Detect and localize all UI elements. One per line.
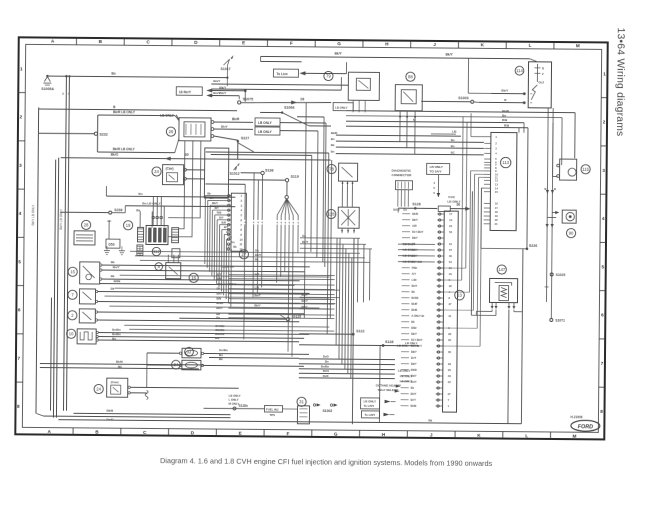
svg-text:Bn: Bn xyxy=(111,72,115,76)
svg-text:S118n: S118n xyxy=(239,404,248,408)
svg-text:24: 24 xyxy=(154,169,159,174)
svg-text:Bk/R: Bk/R xyxy=(502,109,510,113)
svg-text:Bn/Bn: Bn/Bn xyxy=(112,332,121,336)
svg-text:147: 147 xyxy=(498,267,506,272)
svg-text:23: 23 xyxy=(457,293,462,298)
svg-text:B/Y: B/Y xyxy=(219,216,224,220)
svg-text:B/T: B/T xyxy=(255,272,260,276)
svg-text:Bk: Bk xyxy=(111,274,115,278)
svg-text:Gn/Bn: Gn/Bn xyxy=(219,348,228,352)
svg-text:Bk/Y: Bk/Y xyxy=(301,305,307,309)
svg-text:Bn: Bn xyxy=(502,114,506,118)
svg-text:Bk/Y LB ONLY: Bk/Y LB ONLY xyxy=(59,208,63,230)
svg-text:OL2: OL2 xyxy=(538,80,544,84)
svg-text:Bn: Bn xyxy=(451,138,455,142)
svg-text:Bn: Bn xyxy=(331,137,335,141)
svg-text:S227: S227 xyxy=(241,136,249,140)
svg-text:18 Re/Y: 18 Re/Y xyxy=(179,90,192,94)
svg-text:L: L xyxy=(529,43,532,48)
svg-text:Bk/B: Bk/B xyxy=(411,368,417,372)
svg-text:Bk/Y: Bk/Y xyxy=(254,303,260,307)
svg-text:19: 19 xyxy=(126,223,131,228)
svg-text:A/R: A/R xyxy=(412,224,417,228)
svg-text:35: 35 xyxy=(448,350,452,354)
svg-text:M ONLY: M ONLY xyxy=(229,402,240,406)
svg-text:(Cav): (Cav) xyxy=(166,167,174,171)
svg-text:Bk: Bk xyxy=(411,320,415,324)
svg-text:Bk/Y: Bk/Y xyxy=(411,362,417,366)
svg-text:Bk/Y: Bk/Y xyxy=(411,374,417,378)
svg-text:Bk: Bk xyxy=(233,245,237,249)
svg-text:Bn/Y: Bn/Y xyxy=(411,380,417,384)
svg-text:43: 43 xyxy=(449,272,453,276)
svg-text:47: 47 xyxy=(448,302,452,306)
svg-text:Bk/B: Bk/B xyxy=(411,308,417,312)
svg-text:Bk/Y: Bk/Y xyxy=(412,284,418,288)
svg-text:Bk/Y: Bk/Y xyxy=(412,218,418,222)
svg-text:33: 33 xyxy=(448,374,452,378)
svg-text:Gn: Gn xyxy=(302,234,306,238)
svg-text:S128: S128 xyxy=(385,340,393,344)
svg-text:LB ONLY: LB ONLY xyxy=(364,399,377,403)
svg-text:10: 10 xyxy=(239,238,243,242)
svg-text:Bn LB ONLY: Bn LB ONLY xyxy=(142,201,161,205)
svg-text:S232: S232 xyxy=(99,133,107,137)
svg-text:F: F xyxy=(290,41,293,46)
svg-text:S1012: S1012 xyxy=(230,172,240,176)
svg-text:Bk: Bk xyxy=(412,290,416,294)
svg-text:L/Br: L/Br xyxy=(412,278,417,282)
svg-text:Bk: Bk xyxy=(111,260,115,264)
svg-text:Bk/Y: Bk/Y xyxy=(219,91,227,95)
svg-text:B/O: B/O xyxy=(226,230,231,234)
svg-text:S1002: S1002 xyxy=(322,409,332,413)
svg-text:S1025: S1025 xyxy=(556,273,566,277)
svg-text:Bk/Y: Bk/Y xyxy=(411,350,417,354)
svg-text:Bk: Bk xyxy=(255,257,259,261)
svg-text:10: 10 xyxy=(69,331,74,336)
svg-text:S138: S138 xyxy=(265,168,273,172)
svg-text:B/Br: B/Br xyxy=(411,326,417,330)
svg-text:R/B: R/B xyxy=(217,211,222,215)
svg-text:Bn/Y: Bn/Y xyxy=(216,306,223,310)
svg-text:Bn/Y: Bn/Y xyxy=(113,265,120,269)
svg-text:10: 10 xyxy=(449,242,453,246)
svg-text:E: E xyxy=(239,431,242,436)
svg-text:24: 24 xyxy=(96,387,101,392)
svg-text:54: 54 xyxy=(449,260,453,264)
svg-text:TO 3A/Y: TO 3A/Y xyxy=(430,169,443,173)
svg-text:20: 20 xyxy=(448,368,452,372)
svg-text:79: 79 xyxy=(326,74,331,79)
svg-text:B/Bk: B/Bk xyxy=(114,279,121,283)
svg-text:DvD: DvD xyxy=(323,374,329,378)
svg-text:Bn/Y: Bn/Y xyxy=(213,91,220,95)
svg-text:Bk: Bk xyxy=(207,191,211,195)
svg-text:S128: S128 xyxy=(412,202,420,206)
svg-text:31: 31 xyxy=(299,399,304,404)
svg-text:Bk: Bk xyxy=(229,235,233,239)
svg-text:Bk/B: Bk/B xyxy=(411,404,417,408)
svg-text:Bk/Y: Bk/Y xyxy=(335,52,343,56)
svg-text:S1005A: S1005A xyxy=(41,87,54,91)
svg-text:Bn/Y: Bn/Y xyxy=(217,292,224,296)
svg-text:Bn: Bn xyxy=(451,144,455,148)
svg-text:Bk/B: Bk/B xyxy=(106,409,114,413)
svg-text:D: D xyxy=(542,66,544,70)
svg-text:DLY Br/Y: DLY Br/Y xyxy=(411,344,422,348)
svg-text:Bk/R LB ONLY: Bk/R LB ONLY xyxy=(113,110,136,114)
svg-text:28: 28 xyxy=(448,332,452,336)
svg-text:BA: BA xyxy=(210,196,214,200)
svg-text:Gn: Gn xyxy=(231,240,235,244)
svg-text:BN: BN xyxy=(215,336,219,340)
svg-text:114: 114 xyxy=(516,68,523,73)
svg-text:13: 13 xyxy=(449,218,453,222)
svg-text:Bk/R: Bk/R xyxy=(412,212,418,216)
svg-text:DLY Bk/Y: DLY Bk/Y xyxy=(411,338,423,342)
svg-text:S122: S122 xyxy=(356,329,364,333)
svg-text:(Cav): (Cav) xyxy=(111,380,119,384)
svg-text:CONNECTOR: CONNECTOR xyxy=(392,173,413,177)
svg-text:28: 28 xyxy=(300,97,304,101)
svg-text:Bn: Bn xyxy=(325,360,329,364)
svg-text:23: 23 xyxy=(449,224,453,228)
svg-text:FUEL INJ: FUEL INJ xyxy=(266,407,279,411)
svg-text:18: 18 xyxy=(449,284,453,288)
svg-text:To L/NY: To L/NY xyxy=(364,413,375,417)
svg-text:S226: S226 xyxy=(529,244,537,248)
svg-text:S1066: S1066 xyxy=(284,106,294,110)
svg-text:BC: BC xyxy=(451,151,455,155)
svg-text:Bk/R LB ONLY: Bk/R LB ONLY xyxy=(113,147,136,151)
svg-text:A ONLY Br: A ONLY Br xyxy=(411,314,424,318)
svg-text:Bk/O: Bk/O xyxy=(111,153,119,157)
svg-text:B/R: B/R xyxy=(222,220,227,224)
svg-text:B: B xyxy=(554,187,556,191)
svg-text:Bk/Y: Bk/Y xyxy=(221,125,228,129)
svg-text:B: B xyxy=(544,187,546,191)
svg-text:L/B: L/B xyxy=(452,130,457,134)
svg-text:LB ONLY: LB ONLY xyxy=(160,114,175,118)
svg-text:S1003: S1003 xyxy=(458,96,468,100)
svg-text:88: 88 xyxy=(408,74,413,79)
svg-text:Bk: Bk xyxy=(428,418,432,422)
svg-text:27: 27 xyxy=(448,392,452,396)
svg-text:S1017: S1017 xyxy=(220,67,230,71)
svg-text:25: 25 xyxy=(448,338,452,342)
svg-text:Bk/N: Bk/N xyxy=(116,360,123,364)
svg-text:M: M xyxy=(572,434,576,439)
svg-text:15: 15 xyxy=(449,266,453,270)
svg-text:13•64 Wiring diagrams: 13•64 Wiring diagrams xyxy=(614,28,626,137)
svg-text:Bk: Bk xyxy=(331,143,335,147)
svg-text:TPS: TPS xyxy=(269,413,275,417)
svg-text:DV/1: DV/1 xyxy=(323,369,330,373)
svg-text:57: 57 xyxy=(449,248,453,252)
svg-text:Bk/R: Bk/R xyxy=(331,131,337,135)
svg-text:DvD: DvD xyxy=(323,354,329,358)
svg-text:To Live: To Live xyxy=(276,72,287,76)
svg-text:R/B: R/B xyxy=(504,123,510,127)
svg-text:FORD: FORD xyxy=(578,424,593,430)
svg-text:Bk/Y: Bk/Y xyxy=(412,236,418,240)
svg-text:28: 28 xyxy=(84,222,89,227)
svg-text:22: 22 xyxy=(448,380,452,384)
svg-text:G: G xyxy=(334,432,338,437)
svg-text:LB ONLY: LB ONLY xyxy=(258,121,273,125)
svg-text:Bn/Y: Bn/Y xyxy=(301,299,308,303)
svg-text:Bk/Y LB ONLY: Bk/Y LB ONLY xyxy=(31,204,35,226)
svg-text:Bn/Y: Bn/Y xyxy=(255,253,262,257)
svg-text:Bn/Y: Bn/Y xyxy=(302,240,309,244)
svg-text:H.21906: H.21906 xyxy=(570,415,582,419)
svg-text:LB ONLY: LB ONLY xyxy=(258,130,273,134)
svg-text:LB ONLY: LB ONLY xyxy=(335,106,348,110)
svg-text:Br/Y: Br/Y xyxy=(411,356,417,360)
svg-text:B/N: B/N xyxy=(216,297,221,301)
svg-text:41: 41 xyxy=(448,314,452,318)
svg-text:Bn/Y: Bn/Y xyxy=(213,79,220,83)
svg-text:Bk/Y: Bk/Y xyxy=(411,392,417,396)
svg-text:52: 52 xyxy=(449,230,453,234)
svg-text:LB ONLY: LB ONLY xyxy=(398,369,411,373)
svg-text:E: E xyxy=(242,40,245,45)
svg-text:17: 17 xyxy=(449,212,453,216)
svg-text:B/NR: B/NR xyxy=(216,301,223,305)
svg-text:M: M xyxy=(576,43,580,48)
svg-text:Bn: Bn xyxy=(331,150,335,154)
svg-text:Br/Y: Br/Y xyxy=(411,398,417,402)
svg-text:L: L xyxy=(525,433,528,438)
svg-text:Bk/R: Bk/R xyxy=(411,302,417,306)
svg-text:Bn/T: Bn/T xyxy=(302,293,309,297)
svg-text:S238: S238 xyxy=(114,208,122,212)
svg-text:11: 11 xyxy=(239,242,242,246)
svg-text:R/Br: R/Br xyxy=(412,266,418,270)
svg-text:LB ONLY: LB ONLY xyxy=(430,165,444,169)
svg-text:30: 30 xyxy=(185,153,189,157)
svg-text:A/Y: A/Y xyxy=(412,272,417,276)
svg-text:Bk: Bk xyxy=(217,287,221,291)
svg-text:CONTRA: CONTRA xyxy=(222,265,235,269)
svg-text:113: 113 xyxy=(502,160,509,165)
svg-text:Bn: Bn xyxy=(138,192,142,196)
svg-text:R/Y: R/Y xyxy=(214,206,219,210)
svg-text:Bn: Bn xyxy=(216,316,220,320)
svg-text:Bk/Y: Bk/Y xyxy=(212,201,218,205)
svg-text:D53: D53 xyxy=(108,243,114,247)
svg-text:Bk/R: Bk/R xyxy=(232,117,240,121)
svg-text:30: 30 xyxy=(449,254,453,258)
svg-text:Gn: Gn xyxy=(255,248,259,252)
svg-text:26: 26 xyxy=(169,129,174,134)
svg-text:Bk/Y: Bk/Y xyxy=(446,53,454,57)
svg-text:B/N: B/N xyxy=(217,277,222,281)
svg-text:F1/C: F1/C xyxy=(448,195,456,199)
svg-text:115: 115 xyxy=(582,167,589,172)
svg-text:Bn/Bn: Bn/Bn xyxy=(112,328,121,332)
svg-text:R/B: R/B xyxy=(502,118,508,122)
svg-text:Bk: Bk xyxy=(411,386,415,390)
svg-text:S119: S119 xyxy=(291,175,299,179)
svg-text:S1075: S1075 xyxy=(243,97,253,101)
svg-text:G: G xyxy=(337,41,341,46)
svg-text:Bk/Y: Bk/Y xyxy=(501,89,509,93)
svg-text:Bk: Bk xyxy=(111,287,115,291)
svg-text:29: 29 xyxy=(448,362,452,366)
svg-text:36: 36 xyxy=(456,203,460,207)
svg-text:Bk/Y: Bk/Y xyxy=(411,332,417,336)
svg-text:15: 15 xyxy=(70,269,75,274)
svg-text:90: 90 xyxy=(569,231,574,236)
svg-text:DLY Bk/Y: DLY Bk/Y xyxy=(412,230,424,234)
svg-text:F: F xyxy=(287,431,290,436)
svg-text:S1071: S1071 xyxy=(555,319,565,323)
svg-text:Br/Bk: Br/Bk xyxy=(411,296,419,300)
svg-text:Bn/Bn: Bn/Bn xyxy=(321,364,330,368)
svg-text:Bn: Bn xyxy=(112,337,116,341)
svg-text:To L/NY: To L/NY xyxy=(364,404,375,408)
svg-text:B/T: B/T xyxy=(224,225,229,229)
